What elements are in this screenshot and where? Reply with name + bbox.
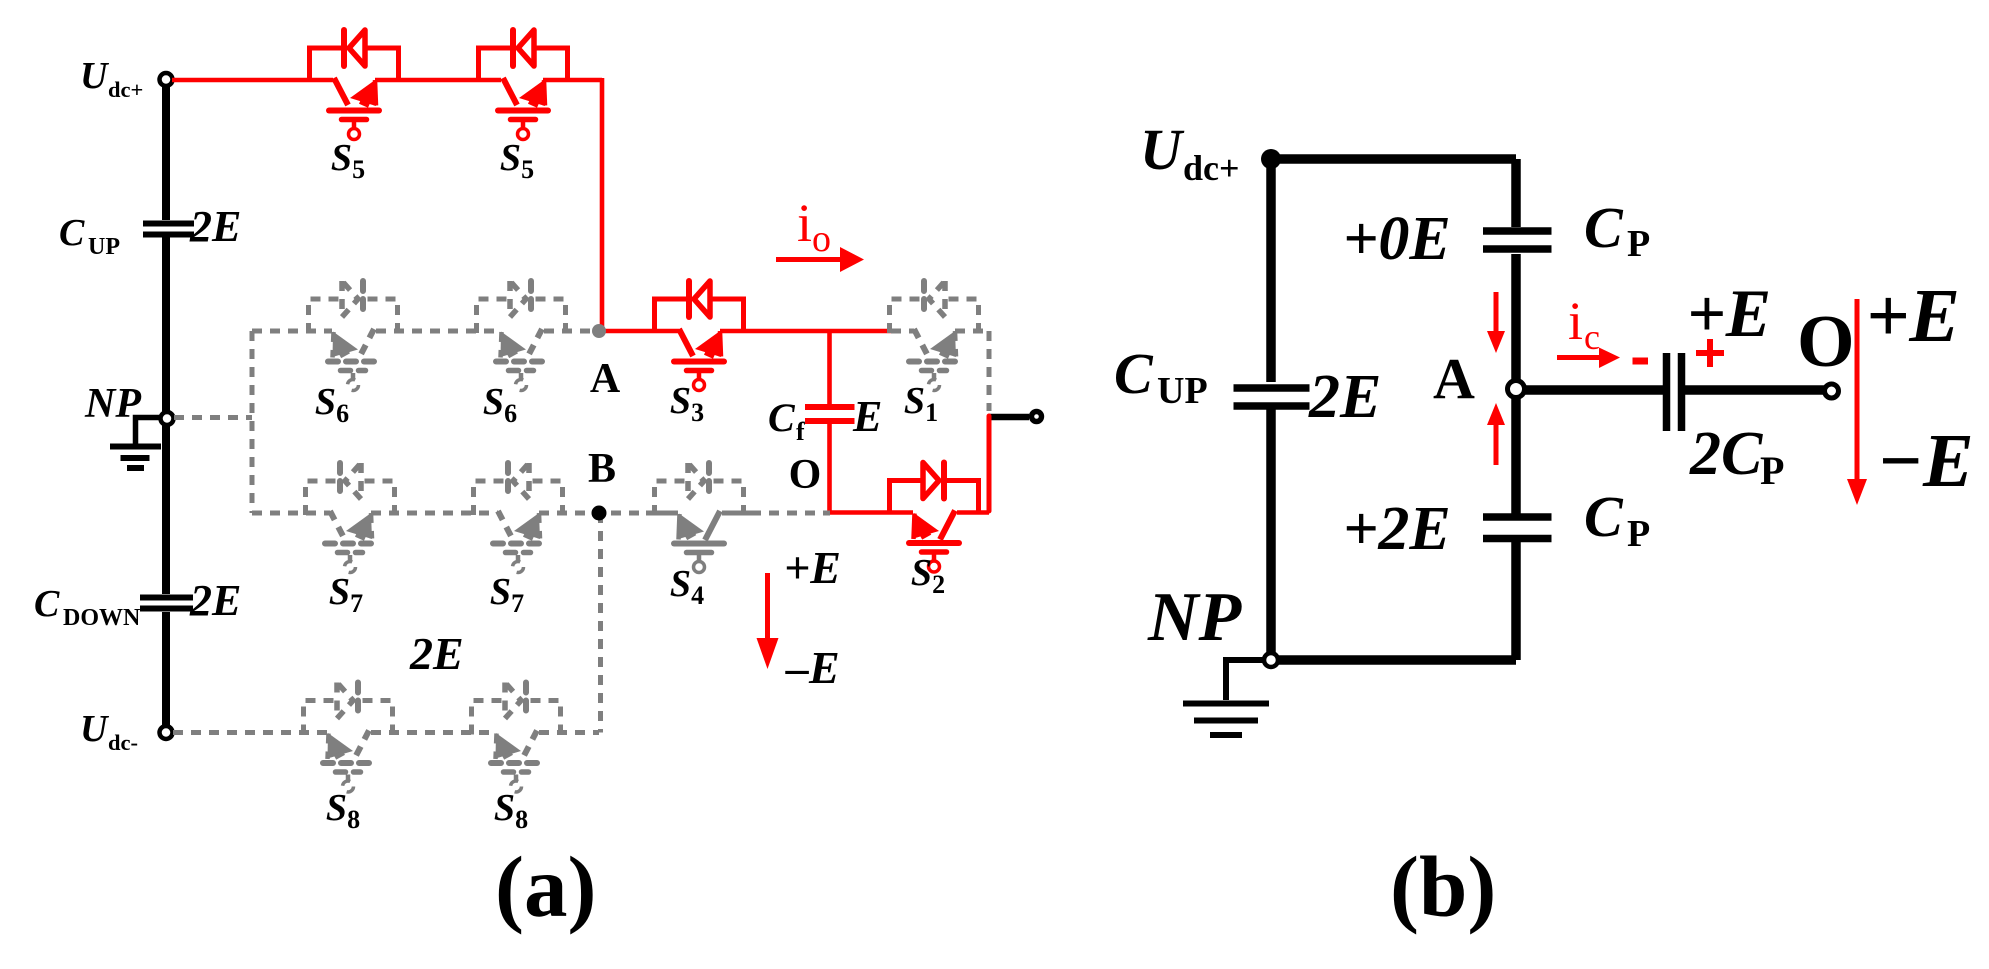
- svg-text:P: P: [1760, 448, 1784, 493]
- svg-text:c: c: [1584, 317, 1600, 357]
- svg-text:S8: S8: [494, 787, 528, 834]
- svg-text:+E: +E: [784, 542, 841, 593]
- svg-text:O: O: [789, 452, 822, 498]
- svg-text:S7: S7: [490, 571, 524, 618]
- svg-text:C: C: [59, 212, 85, 254]
- svg-text:S5: S5: [331, 137, 365, 184]
- svg-text:–E: –E: [785, 642, 840, 693]
- svg-text:dc+: dc+: [108, 77, 143, 102]
- svg-text:−E: −E: [1877, 419, 1974, 503]
- svg-text:2E: 2E: [189, 576, 241, 625]
- svg-text:dc+: dc+: [1183, 148, 1240, 188]
- svg-text:U: U: [80, 55, 110, 97]
- svg-text:2E: 2E: [189, 202, 241, 251]
- svg-text:P: P: [1627, 513, 1650, 555]
- svg-text:f: f: [796, 417, 805, 446]
- svg-text:C: C: [1584, 484, 1624, 549]
- svg-text:S2: S2: [911, 552, 945, 599]
- svg-text:2E: 2E: [409, 628, 464, 679]
- svg-text:A: A: [590, 356, 621, 402]
- svg-text:S7: S7: [329, 571, 363, 618]
- svg-text:2C: 2C: [1689, 420, 1763, 488]
- svg-text:+2E: +2E: [1343, 495, 1451, 563]
- svg-text:+E: +E: [1866, 274, 1960, 358]
- svg-text:+E: +E: [1687, 275, 1771, 351]
- svg-text:S6: S6: [483, 381, 517, 428]
- svg-text:U: U: [1140, 117, 1185, 182]
- svg-text:NP: NP: [1147, 579, 1243, 656]
- svg-text:o: o: [812, 218, 831, 260]
- svg-text:S8: S8: [326, 787, 360, 834]
- svg-text:(a): (a): [495, 838, 596, 935]
- svg-text:O: O: [1797, 301, 1855, 383]
- svg-text:A: A: [1433, 346, 1475, 411]
- svg-text:C: C: [1114, 341, 1154, 406]
- svg-text:UP: UP: [1157, 370, 1208, 412]
- svg-text:UP: UP: [88, 234, 120, 260]
- svg-text:B: B: [588, 446, 616, 492]
- svg-text:E: E: [852, 392, 882, 441]
- svg-text:C: C: [34, 583, 60, 625]
- svg-text:C: C: [1584, 195, 1624, 260]
- svg-text:U: U: [80, 708, 110, 750]
- svg-text:S5: S5: [500, 137, 534, 184]
- svg-text:i: i: [1568, 291, 1583, 351]
- svg-text:DOWN: DOWN: [63, 605, 141, 631]
- svg-text:(b): (b): [1390, 838, 1496, 935]
- svg-text:2E: 2E: [1308, 363, 1381, 431]
- svg-text:C: C: [768, 395, 796, 440]
- svg-text:S6: S6: [315, 381, 349, 428]
- svg-text:P: P: [1627, 223, 1650, 265]
- svg-text:i: i: [797, 193, 812, 253]
- svg-text:+0E: +0E: [1343, 205, 1451, 273]
- svg-text:dc-: dc-: [108, 730, 138, 755]
- svg-text:NP: NP: [84, 381, 141, 427]
